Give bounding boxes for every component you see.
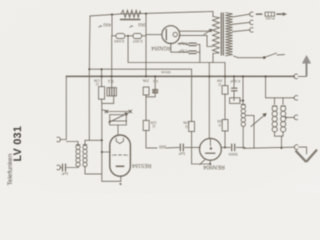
coil L2 loops [272,106,277,111]
svg-text:Ω: Ω [185,124,188,128]
pin cross left [105,110,108,113]
svg-text:1μF: 1μF [178,152,186,157]
wire grid chain 13k top [101,69,103,86]
coupling transformer primary loops [76,145,80,149]
capacitor C2 box [133,33,142,38]
svg-text:Ω: Ω [218,123,221,127]
wire ground rail [243,147,294,148]
wire cap 0.1 top [111,36,113,88]
resistor R7 bus box [222,86,228,95]
wire RGN354 anode 2 [180,35,213,46]
wire RGN354 anode 1 [180,30,211,32]
variable coupling arrow [251,114,266,126]
resistor P fieldcoil box [265,12,275,16]
grid capacitor C8 plates [179,144,181,152]
wire cap C1 feed [111,15,113,36]
wire 2M chain [224,76,226,85]
capacitor C7 bus plates [231,87,238,89]
svg-text:23k: 23k [143,79,149,83]
wire to rheostat [102,110,107,112]
rheostat arrow [108,113,127,123]
wire coil L1 tap [246,114,254,116]
wire transformer left winding top feed [212,16,214,17]
resistor R8 hf box [230,98,240,104]
svg-text:REN904: REN904 [203,164,225,170]
antenna arrow up [303,57,310,76]
wire RES164 grid lead [102,151,110,153]
resistor R3 2x10 box [143,87,149,95]
transformer T1 tap arrow [204,30,212,35]
svg-text:500: 500 [159,144,167,149]
svg-text:0,1: 0,1 [153,79,158,83]
wire 12k chain to 500/grid cap [146,131,157,148]
wire coupling secondary bottom [85,167,102,174]
output capacitor C9 plates [231,144,233,152]
svg-text:Ω: Ω [96,82,99,86]
wire transformer secondary out 2 [233,22,250,24]
wire coil L1 bottom to ground rail [242,127,244,149]
wire bus cap 0.5 [233,76,235,88]
svg-text:LV 031: LV 031 [12,126,24,162]
terminal chevron bottom-left [57,165,61,170]
wire transformer left winding bottom drop [212,54,214,63]
terminal chevron ground rail [294,145,298,150]
ground symbol earth V [296,150,318,162]
svg-text:1kΩ: 1kΩ [138,23,146,28]
terminal chevron output 3 [250,28,254,32]
filter capacitor C4 plates [189,50,197,52]
svg-text:0,5μF: 0,5μF [229,79,240,84]
svg-text:P≈5Ω: P≈5Ω [265,16,275,20]
svg-text:1μF: 1μF [61,172,69,177]
V1 top cap [116,138,123,144]
rheostat cross-bar [107,111,131,113]
rectifier tube U1 RGN354 [162,26,180,44]
pentode V1 RES164 envelope [110,135,131,176]
V2 grid line [209,138,211,146]
resistor R1 mains dropper [121,10,141,17]
wire C6 parallel cap [154,76,156,89]
transformer T1 secondary winding [225,13,232,56]
transformer T1 primary winding [213,17,220,54]
rheostat box [110,115,127,121]
svg-text:0,5μF: 0,5μF [178,49,189,54]
wire anode line REN904 [208,63,210,139]
svg-text:5000: 5000 [228,152,238,157]
wire 500 label to grid cap [167,146,180,149]
label 1kohm [130,26,134,28]
wire coil pair top stubs [274,98,276,105]
terminal chevron output 1 [250,12,254,16]
svg-text:Ω: Ω [152,124,155,128]
wire switch lead [234,56,265,58]
wire transformer secondary out 1 [233,14,250,17]
svg-text:2M: 2M [217,119,222,123]
wire top rail [90,12,213,16]
bus end chevron [294,74,298,79]
svg-text:13k: 13k [94,78,100,82]
svg-text:15k: 15k [183,121,189,125]
wire 12k chain mid [145,95,147,120]
resistor R4 12k box [143,120,149,130]
terminal chevron coil 2 [294,115,298,120]
V1 anode bar [116,165,125,167]
speaker field lead thick dash [256,13,262,15]
wire REN904 label pointer [200,160,205,165]
V1 grid dashes [112,155,113,156]
wire long cathode vertical [102,103,121,181]
wire ground elbow [299,147,307,154]
resistor R5 15k box [189,121,195,131]
wire heater line [128,63,225,77]
triode V2 REN904 envelope [200,138,222,160]
svg-text:12k: 12k [150,120,156,124]
wire hf choke link [240,100,243,102]
resistor R2 13k box [99,87,105,100]
wire rheostat box drops [110,121,127,125]
wire RES164 plate bottom stub [120,176,122,181]
wire coil tap to terminal [286,116,294,118]
wire rail A [89,69,191,121]
wire filter caps to heater line [197,44,200,62]
coil L3 loops [281,106,286,111]
wire REN904 anode out to caps [222,146,231,148]
terminal chevron pickup left [57,137,61,142]
wire grid cap to REN904 [185,146,200,148]
wire bottom-left cap link [61,167,62,169]
svg-text:0,1: 0,1 [107,79,113,84]
wire right cap feed down to bus [145,14,147,77]
capacitor C10 plates bottom-left [62,164,64,172]
wire coil pair bottom drop [281,136,283,148]
capacitor C6 hatch [153,90,158,94]
capacitor C5 0.1 stack [107,88,116,96]
wire RGN354 to filter caps [178,43,189,46]
svg-text:RGN354: RGN354 [151,45,171,51]
transformer T1 core [220,13,222,56]
resistor R6 2M box [222,120,228,132]
svg-text:RES164: RES164 [132,162,151,168]
svg-text:Ω: Ω [218,82,221,86]
wire coil pair bottom U [275,132,284,136]
switch S1 contact dot [263,57,265,59]
label 40ohm [99,26,103,28]
resistor R1 underline [121,19,140,21]
wire REN904 cathode stub [209,160,211,164]
wire coil row to cathode line [85,139,102,141]
wire 13k + 0.1 merge [102,96,114,104]
svg-text:0,045: 0,045 [114,39,125,44]
wire transformer secondary out 3 [233,30,250,32]
wire C1-C2 junction drop to heater line [127,36,129,63]
wire coil pair top link [266,97,295,99]
pin cross right [129,110,132,113]
coupling transformer secondary loops [83,145,87,149]
wire coupling coil top to bus drop [66,142,78,146]
svg-text:2M: 2M [217,79,222,83]
wire left drop from top rail [88,16,91,140]
wire main bus [66,75,294,77]
terminal chevron output 2 [250,20,254,24]
coil L1 loops [241,105,245,109]
coupling arrow head [263,114,267,117]
speaker field lead 2 with arrow [276,13,282,15]
filter capacitor C3 plates [189,42,197,44]
wire coil L1 feed from bus [242,76,244,104]
switch S1 blade [265,53,277,57]
wire bus left drop [60,76,66,139]
capacitor C1 box [116,33,125,38]
svg-text:40Ω: 40Ω [103,23,111,28]
svg-text:0,007: 0,007 [132,39,143,44]
wire bus drop to coil pair [265,76,267,97]
wire rheostat to RES164 top [117,125,119,135]
wire coil secondary top [84,140,86,145]
svg-text:0,5μF: 0,5μF [178,41,189,46]
terminal chevron coil 1 [294,95,298,100]
wire variable tap drop [253,115,255,148]
V2 cathode bar [205,152,215,154]
wire 15k to cathode corner [192,132,211,165]
svg-text:60mA: 60mA [161,70,171,74]
wire bus end to antenna arrow [298,62,306,76]
